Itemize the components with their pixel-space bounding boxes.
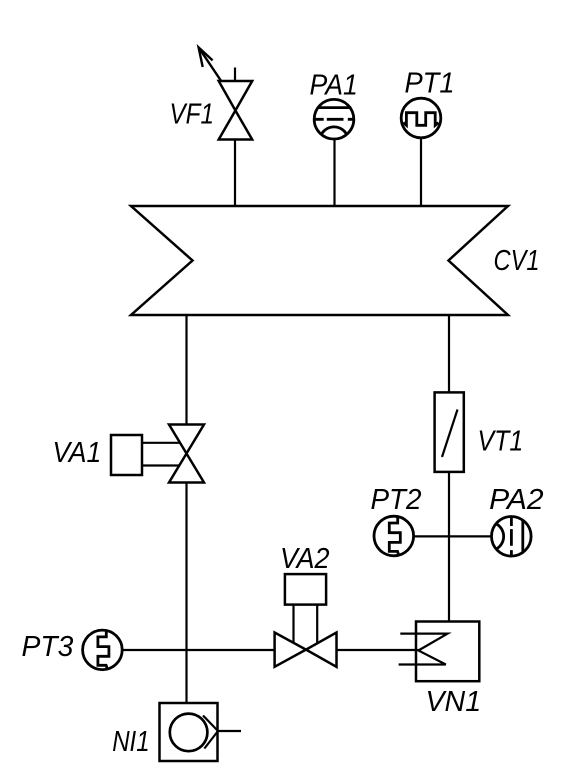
pump NI1 xyxy=(112,703,241,761)
valve VF1 xyxy=(170,47,253,139)
wire CV1 bottom-left to VA1 xyxy=(185,315,187,425)
svg-text:CV1: CV1 xyxy=(494,245,540,277)
wire CV1 bottom-right to VT1 xyxy=(448,315,450,393)
instrument PA2 xyxy=(489,484,543,557)
valve VA2 xyxy=(275,543,337,667)
wire PT2 to PA2 xyxy=(414,535,492,537)
wire PA1 stem xyxy=(333,138,335,206)
wire PT1 stem xyxy=(420,138,422,207)
instrument PT2 xyxy=(371,484,422,556)
wire VA2 to VN1 xyxy=(337,649,419,651)
svg-text:PT3: PT3 xyxy=(22,631,74,663)
svg-text:VF1: VF1 xyxy=(170,98,215,130)
wire VT1 to VN1 xyxy=(448,472,450,622)
svg-text:VA1: VA1 xyxy=(53,437,102,469)
wire VA1 to NI1 xyxy=(185,482,187,703)
instrument PT1 xyxy=(401,68,454,138)
svg-text:VT1: VT1 xyxy=(478,426,524,458)
valve VA1 xyxy=(53,425,205,483)
svg-text:NI1: NI1 xyxy=(112,726,149,758)
svg-text:PA1: PA1 xyxy=(310,69,358,101)
heater VN1 xyxy=(399,622,482,718)
instrument PT3 xyxy=(22,630,123,670)
flow transducer VT1 xyxy=(435,392,524,472)
wire PT3 to VA2 xyxy=(123,649,275,651)
svg-text:VN1: VN1 xyxy=(426,686,482,718)
svg-text:PT2: PT2 xyxy=(371,484,422,516)
svg-text:PA2: PA2 xyxy=(489,484,543,516)
instrument PA1 xyxy=(310,69,358,139)
svg-text:PT1: PT1 xyxy=(405,68,455,100)
chamber CV1 xyxy=(131,206,540,315)
wire VF1 to CV1 top xyxy=(234,140,236,207)
svg-text:VA2: VA2 xyxy=(280,543,330,575)
